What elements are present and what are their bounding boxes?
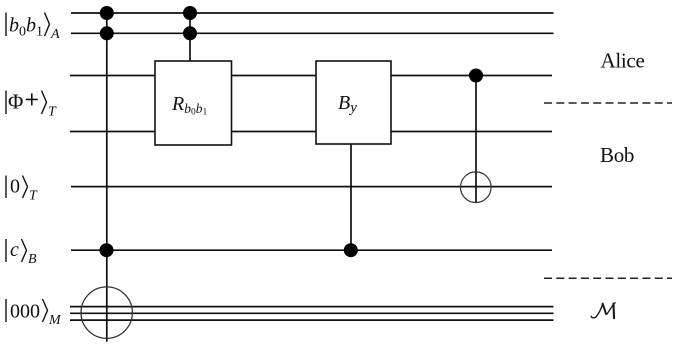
control dot on q2 at x=476 (469, 69, 483, 83)
wire m1 (|000>_M middle) (70, 312, 554, 314)
ket label |c>_B (6, 239, 37, 267)
gate box B_y (316, 61, 391, 144)
wire q4 (|0>_T) (71, 186, 552, 188)
CNOT target (big) on measurement register (81, 287, 132, 338)
label script M (591, 303, 615, 318)
dashed separator Bob/M (544, 277, 672, 279)
svg-text:T: T (48, 105, 57, 120)
wire q3 (|Phi+> line 2) left segment (70, 131, 155, 133)
svg-text:B: B (28, 252, 37, 267)
svg-text:000: 000 (10, 301, 40, 323)
wire q3 right segment (391, 131, 552, 133)
svg-text:Bob: Bob (600, 143, 634, 167)
wire m2 (|000>_M bottom) (70, 319, 554, 321)
wire q2 right segment (391, 75, 552, 77)
wire vertical control line x=476 (q2 control to q4 target) (475, 76, 477, 203)
control dot on q1 at x=107 (100, 26, 114, 40)
gate box R_b0b1 (155, 61, 232, 145)
svg-text:A: A (50, 27, 60, 42)
ket label |0>_T (6, 176, 38, 204)
wire m0 (|000>_M top) (70, 306, 554, 308)
control dot on q5 at x=107 (100, 243, 114, 257)
ket label |000>_M (6, 299, 62, 328)
wire q2 middle segment (232, 75, 317, 77)
wire vertical control line x=190 (q0/q1 controls to R gate) (189, 13, 191, 61)
wire vertical control line x=351 (B gate to q5 control) (350, 144, 352, 250)
ket label |Phi+>_T (6, 90, 57, 120)
svg-text:T: T (29, 189, 38, 204)
control dot on q1 at x=190 (183, 26, 197, 40)
dashed separator Alice/Bob (544, 102, 672, 104)
wire q5 (|c>_B) (71, 249, 552, 251)
CNOT target on q4 (461, 172, 492, 203)
svg-text:Alice: Alice (601, 49, 645, 73)
control dot on q0 at x=190 (183, 6, 197, 20)
svg-text:M: M (48, 313, 62, 328)
wire q1 (|b0b1> line 2) (71, 32, 554, 34)
wire q2 (|Phi+> line 1) left segment (70, 75, 155, 77)
wire q3 middle segment (232, 131, 317, 133)
control dot on q0 at x=107 (100, 6, 114, 20)
ket label |b0b1>_A (6, 13, 60, 43)
svg-text:0: 0 (10, 176, 20, 198)
wire q0 (|b0b1> line 1) (71, 12, 554, 14)
svg-text:c: c (10, 239, 19, 261)
control dot on q5 at x=351 (344, 243, 358, 257)
svg-text:Φ: Φ (8, 90, 23, 114)
wire vertical control line x=107 (q0/q1/q5 controls to big target) (106, 13, 108, 342)
